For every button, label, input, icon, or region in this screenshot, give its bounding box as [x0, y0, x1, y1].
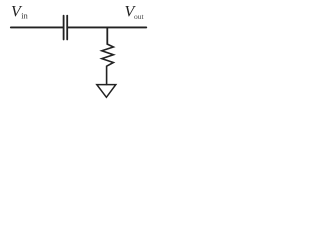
svg-text:out: out — [134, 12, 145, 21]
svg-text:in: in — [21, 11, 28, 21]
